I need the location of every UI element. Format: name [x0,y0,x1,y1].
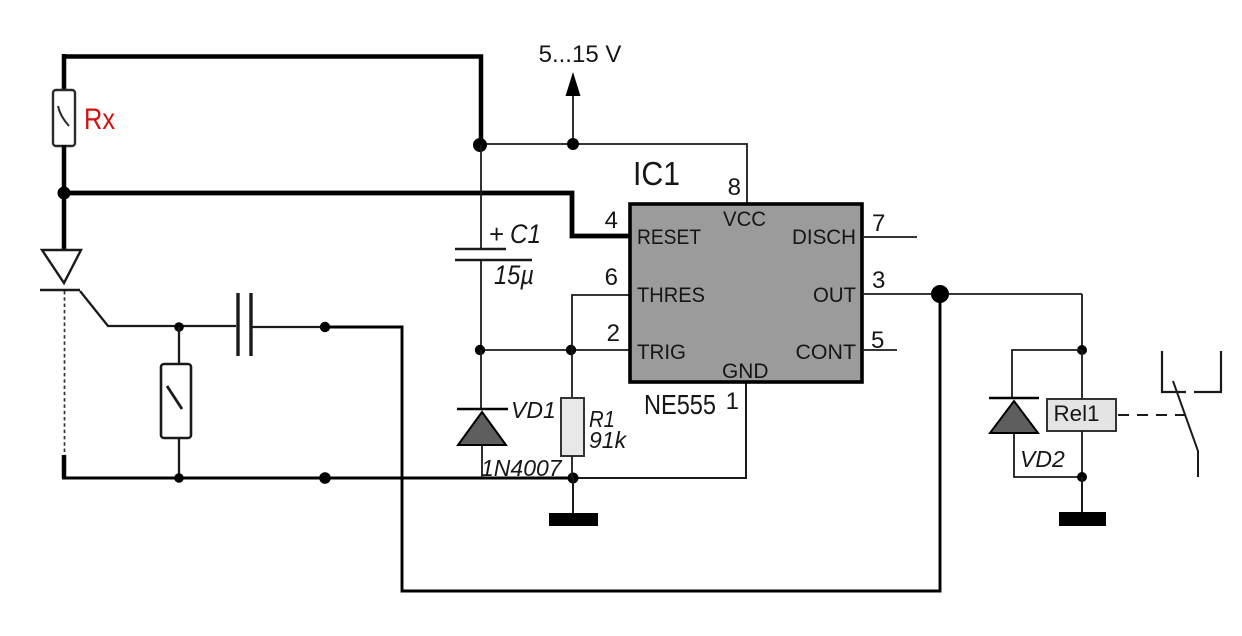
power arrow 5...15 V [566,72,581,145]
node C1 top [473,138,487,152]
diode VD1 [457,409,508,478]
svg-text:5...15 V: 5...15 V [539,41,622,68]
svg-text:OUT: OUT [813,283,856,307]
svg-text:VD1: VD1 [511,397,556,423]
svg-text:IC1: IC1 [633,155,680,192]
svg-text:1: 1 [726,388,739,415]
capacitor C1 [455,249,532,260]
wire R1 bottom lead [571,456,573,478]
node cap output [320,322,330,332]
wire VD1 top lead [480,350,482,408]
svg-text:RESET: RESET [637,225,701,249]
node Rx bottom junction [58,187,71,200]
svg-text:3: 3 [872,267,885,294]
svg-text:TRIG: TRIG [637,340,686,364]
ground symbol middle [549,478,598,526]
svg-text:C1: C1 [510,219,541,249]
wire pin 5 CONT stub [862,349,897,351]
wire R2 top lead [178,327,180,364]
wire sensor top lead [62,197,67,250]
dashed mechanical link Rel1 to contact [1118,414,1188,416]
wire C1 top lead [480,145,482,248]
svg-text:91k: 91k [589,427,628,453]
wire TRIG line [480,349,629,351]
wire R1 top lead [571,350,573,398]
sensor diode (touch plate) triangle [42,250,81,283]
node relay bottom [1077,472,1087,482]
svg-text:1N4007: 1N4007 [481,455,563,481]
svg-text:Rx: Rx [84,103,115,136]
relay coil Rel1 [1047,399,1116,431]
resistor R2 (left) [161,364,191,438]
wire feedback loop from cap node to OUT node [325,294,940,591]
node junction at R2 top [174,322,184,332]
wire thick to pin 4 RESET [64,193,629,236]
relay contact blade [1173,381,1198,477]
svg-text:DISCH: DISCH [792,225,856,249]
node rail R2 [174,473,184,483]
sensor diode bar [40,289,80,291]
svg-text:15µ: 15µ [494,260,534,290]
node relay top [1077,345,1087,355]
svg-text:CONT: CONT [796,340,857,364]
svg-text:NE555: NE555 [644,389,716,420]
svg-text:6: 6 [605,264,618,291]
op-amp IC1 NE555 body [630,204,862,382]
wire Rel1 bottom lead [1081,431,1083,478]
svg-text:GND: GND [722,359,769,383]
wire diagonal from sensor [80,291,236,326]
diode VD2 [989,398,1039,433]
wire relay branch down [1081,294,1083,350]
svg-text:8: 8 [728,174,741,201]
resistor R1 [561,398,584,456]
svg-text:+: + [489,219,504,249]
wire stub to rail [62,455,67,478]
svg-text:Rel1: Rel1 [1054,401,1100,426]
node TRIG-R1 [566,345,576,355]
wire VD2 top branch [1012,350,1082,398]
photoresistor Rx [53,90,75,146]
ground symbol right [1059,477,1106,526]
node TRIG-C1 [475,345,485,355]
svg-text:2: 2 [607,320,620,347]
node OUT [931,285,949,303]
wire C1 bottom lead [480,260,482,350]
wire pin 3 OUT to relay branch [862,293,1082,295]
svg-text:7: 7 [872,210,885,237]
capacitor coupling plates [238,293,251,356]
wire cap right lead [252,326,326,328]
svg-text:VD2: VD2 [1020,446,1065,472]
wire THRES line [572,295,629,350]
svg-text:THRES: THRES [637,283,705,307]
node rail mid [319,472,331,484]
wire Rx top lead [62,54,67,92]
wire rail to pin 1 GND [573,383,746,478]
wire VD2 bottom branch [1014,433,1082,477]
node power arrow [567,138,579,150]
wire R2 bottom lead [178,438,180,478]
svg-text:VCC: VCC [723,207,766,231]
wire pin 7 DISCH stub [862,236,917,238]
wire VCC rail to pin 8 [480,144,747,203]
wire Rel1 coil top lead [1081,350,1083,399]
dashed wire sensor to ground rail [64,291,66,456]
relay contact fixed terminals [1162,351,1222,392]
svg-text:4: 4 [605,207,618,234]
ground rail wire bottom left [62,477,574,480]
wire Rx bottom lead [62,145,67,197]
wire top rail from Rx to C1 node [64,57,481,146]
node ground junction [568,473,579,484]
